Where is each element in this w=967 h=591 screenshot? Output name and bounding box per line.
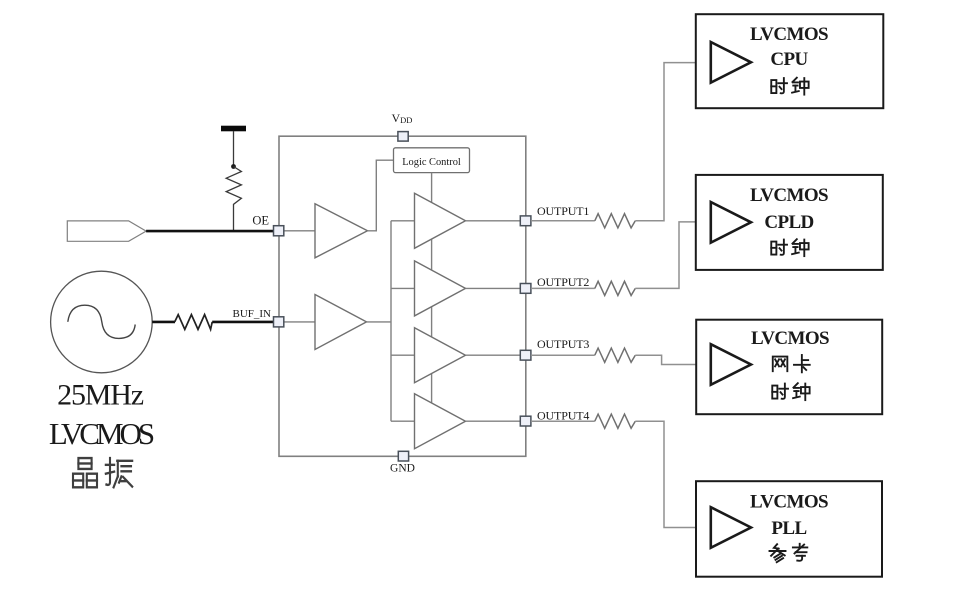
oscillator circle (51, 271, 153, 373)
wire enable T1-T2 (431, 239, 433, 270)
svg-text:LVCMOS: LVCMOS (750, 492, 828, 513)
wire OE thick (146, 230, 273, 233)
bus stub T2 (391, 287, 415, 289)
logic control box (394, 148, 470, 173)
buffer A1 (OE) (315, 204, 368, 258)
svg-text:PLL: PLL (771, 518, 806, 539)
sine wave (68, 305, 135, 338)
svg-text:LVCMOS: LVCMOS (750, 185, 828, 206)
svg-text:Logic Control: Logic Control (402, 157, 461, 168)
svg-text:OUTPUT3: OUTPUT3 (537, 337, 589, 351)
pin OUTPUT1 (520, 216, 531, 226)
buffer A2 (BUF_IN) (315, 295, 367, 350)
svg-text:LVCMOS: LVCMOS (750, 24, 828, 45)
box PLL ref (696, 481, 882, 577)
pin OE (274, 226, 284, 236)
buffer CPLD (711, 202, 751, 243)
wire R2 to BUF_IN thick (212, 321, 273, 324)
wire power bar to junction (233, 131, 235, 166)
svg-text:OUTPUT1: OUTPUT1 (537, 204, 589, 218)
buffer CPU (711, 42, 751, 83)
bus stub T3 (391, 354, 415, 356)
bus stub T1 (391, 220, 415, 222)
pin GND (398, 451, 408, 461)
bus stub T4 (391, 420, 415, 422)
pin VDD (398, 132, 408, 142)
resistor R2 (175, 315, 213, 330)
svg-text:OUTPUT4: OUTPUT4 (537, 409, 589, 423)
wire R3 to CPU box (635, 63, 711, 221)
svg-text:LVCMOS: LVCMOS (751, 328, 829, 349)
wire BUF_IN pin to buffer A2 (284, 321, 315, 323)
buffer PLL (711, 507, 751, 548)
svg-text:GND: GND (390, 463, 415, 475)
svg-text:LVCMOS: LVCMOS (49, 416, 154, 451)
net tag connector (67, 221, 146, 241)
bus vertical (390, 221, 392, 421)
output buffer T3 (415, 328, 466, 383)
power rail bar (221, 126, 246, 132)
svg-text:25MHz: 25MHz (57, 379, 144, 412)
resistor R3 (595, 214, 636, 228)
junction dot (231, 164, 236, 169)
output buffer T2 (415, 261, 466, 316)
output buffer T1 (415, 193, 466, 248)
label CPLD clock CJK (771, 239, 808, 256)
label 网卡 CJK (773, 355, 810, 372)
wire osc to R2 thick (152, 321, 175, 324)
resistor R6 (595, 414, 636, 428)
box CPU clock (696, 14, 884, 108)
pin BUF_IN (274, 317, 284, 327)
IC body U1 (279, 136, 526, 456)
wire pin4 to R6 (531, 420, 595, 422)
resistor R5 (595, 348, 636, 362)
output buffer T4 (415, 394, 466, 449)
wire OE pin to buffer A1 (284, 230, 315, 232)
wire R6 to PLL box (635, 421, 711, 527)
label CPU clock CJK (771, 78, 808, 95)
pin OUTPUT4 (520, 416, 531, 426)
svg-text:CPLD: CPLD (764, 212, 813, 233)
wire T1 to OUTPUT1 pin (466, 220, 521, 222)
wire buffer A2 to bus (367, 321, 392, 323)
box CPLD clock (696, 175, 883, 270)
wire T3 to OUTPUT3 pin (466, 354, 521, 356)
wire pin1 to R3 (531, 220, 595, 222)
wire buffer A1 to logic control (368, 160, 394, 231)
svg-text:CPU: CPU (770, 49, 808, 70)
wire pin3 to R5 (531, 354, 595, 356)
label 晶振 (73, 458, 132, 487)
wire enable T2-T3 (431, 307, 433, 337)
svg-text:OE: OE (252, 214, 269, 228)
svg-text:BUF_IN: BUF_IN (232, 308, 271, 320)
wire pin2 to R4 (531, 287, 595, 289)
label 时钟 CJK (net card) (772, 383, 809, 400)
resistor R1 pull-up (226, 167, 241, 232)
wire T2 to OUTPUT2 pin (466, 287, 521, 289)
wire R5 to net card box (635, 355, 711, 364)
label 参考 CJK (770, 544, 808, 562)
buffer net card (711, 344, 751, 385)
wire enable T3-T4 (431, 374, 433, 403)
wire R4 to CPLD box (635, 222, 711, 289)
box net card clock (696, 320, 882, 415)
resistor R4 (595, 281, 636, 295)
pin OUTPUT2 (520, 284, 531, 294)
wire logic control to buffer chain (431, 173, 433, 203)
wire T4 to OUTPUT4 pin (466, 420, 521, 422)
svg-text:OUTPUT2: OUTPUT2 (537, 275, 589, 289)
pin OUTPUT3 (520, 350, 531, 360)
